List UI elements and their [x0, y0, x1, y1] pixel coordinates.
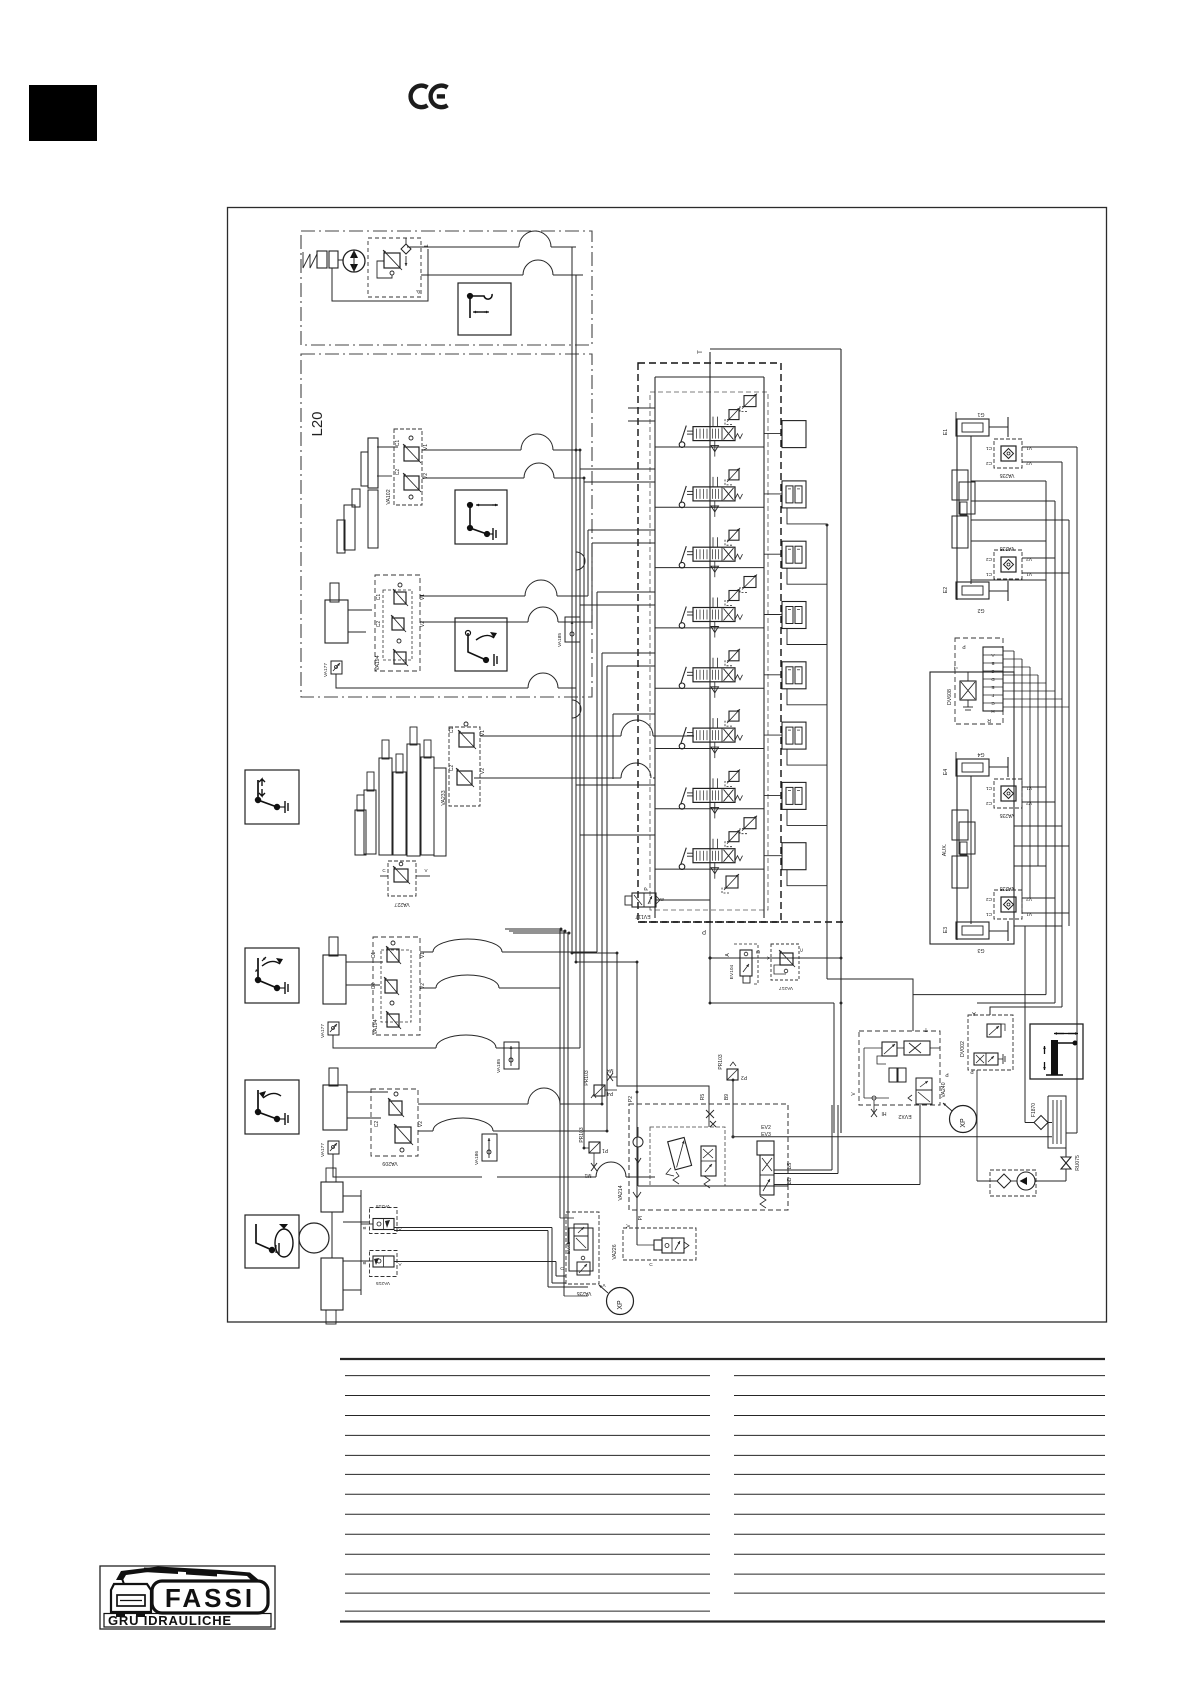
compensator wire 1	[764, 433, 782, 435]
valve RU075	[1061, 1157, 1071, 1169]
svg-text:BD: BD	[787, 1177, 793, 1184]
DV608 pin connector	[983, 647, 1003, 711]
VA217 valve dashed box	[771, 944, 799, 980]
hand pump HP circle	[343, 250, 365, 272]
DCV spool 5	[693, 668, 735, 682]
EVX1 lower valve	[577, 1262, 590, 1275]
bank section 1 separator	[655, 446, 764, 448]
svg-text:VA214: VA214	[618, 1185, 624, 1200]
valve block VA209 dashed box	[371, 1089, 418, 1156]
VA233 valve 2	[457, 771, 472, 785]
vertical hose on bundle	[576, 552, 585, 570]
oil tank	[1047, 1096, 1049, 1133]
VA226 spool	[662, 1238, 684, 1253]
valve block VA233 dashed box	[449, 727, 480, 806]
valve block VA102 dashed box	[394, 429, 422, 505]
wire bundle vertical 7	[596, 592, 598, 952]
FASSI wordmark box	[152, 1581, 268, 1613]
suction strainer	[997, 1174, 1011, 1188]
svg-text:G1: G1	[977, 411, 984, 417]
svg-text:A: A	[398, 1262, 401, 1267]
valve VA235 for G1	[994, 439, 1022, 468]
svg-text:C2: C2	[986, 556, 992, 562]
svg-text:B: B	[991, 661, 994, 666]
stabilizer cylinder G2	[956, 582, 989, 599]
svg-text:B: B	[362, 1261, 367, 1264]
svg-text:VA240: VA240	[941, 1082, 947, 1097]
wire slewing A lower	[394, 1261, 556, 1263]
svg-text:DV608: DV608	[947, 689, 953, 705]
collector to lower right	[827, 979, 913, 1031]
svg-text:V2: V2	[1026, 460, 1032, 466]
svg-text:T: T	[698, 350, 704, 354]
valve block VA214 dashed box	[629, 1104, 788, 1210]
svg-text:VA194: VA194	[375, 655, 381, 670]
outrigger beam	[956, 759, 958, 940]
FASSI logo crane boom	[116, 1567, 260, 1582]
VA194 valve 1	[394, 592, 406, 604]
DCV spool 7	[693, 788, 735, 802]
svg-text:P4: P4	[607, 1090, 613, 1096]
svg-text:V1: V1	[1026, 785, 1032, 791]
valve 2	[395, 1127, 411, 1143]
suction strainer + pump dashed box	[990, 1170, 1036, 1196]
icon box: jib 2	[245, 1080, 299, 1134]
bank feed row3 B	[592, 542, 655, 544]
svg-text:G: G	[991, 701, 995, 706]
pump suction lines	[976, 1070, 978, 1181]
DCV check valve 4	[714, 622, 716, 638]
VA214 pilot valve slanted	[668, 1137, 692, 1169]
wire V1 to bundle	[422, 449, 521, 451]
pressure compensator 2	[782, 481, 806, 508]
bank feed row2 B	[584, 481, 655, 483]
svg-text:V1: V1	[423, 444, 429, 450]
svg-text:V2: V2	[418, 1121, 424, 1127]
bank feed row1 A	[628, 407, 655, 409]
XP quick coupling 2	[950, 1106, 977, 1133]
DCV check valve 2	[714, 501, 716, 517]
bank feed row2 A	[579, 468, 581, 470]
svg-text:VA177: VA177	[320, 1024, 326, 1038]
svg-text:B: B	[362, 1226, 367, 1229]
DCV check valve 7	[714, 802, 716, 818]
wire V2 to bundle	[422, 477, 524, 479]
svg-text:VA194: VA194	[373, 1019, 379, 1034]
CE marking	[411, 86, 448, 108]
stabilizer cylinder G1	[956, 419, 989, 436]
pressure compensator 5	[782, 662, 806, 689]
section relief valve 6	[729, 711, 739, 721]
DCV spool 1	[693, 427, 735, 441]
svg-text:E4: E4	[943, 769, 949, 775]
valve VA215 lower	[373, 1256, 394, 1267]
svg-text:E1: E1	[943, 429, 949, 435]
diverter DV608 dashed box	[955, 638, 1003, 724]
pump base lines	[332, 249, 428, 301]
svg-text:VA102: VA102	[386, 489, 392, 504]
wire bundle vertical 10	[612, 714, 614, 779]
svg-text:VA235: VA235	[999, 812, 1014, 818]
svg-text:GRU IDRAULICHE: GRU IDRAULICHE	[108, 1613, 232, 1628]
VA177-2 lock valve	[328, 1022, 339, 1035]
wire bundle vertical 8	[601, 653, 603, 1104]
svg-text:G2: G2	[977, 607, 984, 613]
drain bundle corner	[575, 687, 577, 689]
svg-text:V1: V1	[1026, 911, 1032, 917]
slewing pinion circle	[299, 1223, 329, 1253]
relief valve block dashed box	[368, 238, 421, 297]
pressure compensator 6	[782, 722, 806, 749]
valve VA235 for G2	[994, 550, 1022, 579]
svg-text:F1870: F1870	[1031, 1103, 1037, 1117]
svg-text:V2: V2	[1026, 896, 1032, 902]
svg-text:VA185: VA185	[496, 1059, 502, 1073]
right bundle verticals	[1045, 481, 1047, 995]
VA227 valve	[394, 869, 408, 882]
wire bundle vertical 6	[591, 543, 593, 622]
lower-right assembly housing	[930, 672, 1014, 944]
compensator wire 8	[764, 855, 782, 857]
P distribution horizontal	[710, 1002, 834, 1004]
DCV spool 4	[693, 608, 735, 622]
compensator wire 4	[764, 614, 782, 616]
DCV check valve 8	[714, 863, 716, 879]
svg-text:C2: C2	[371, 983, 377, 990]
M1 test point	[593, 1153, 595, 1166]
svg-text:C2: C2	[376, 621, 382, 628]
DCV check valve 6	[714, 742, 716, 758]
gear pump	[1017, 1172, 1035, 1190]
svg-text:XP: XP	[617, 1300, 624, 1310]
valve 2	[385, 980, 397, 993]
wires into EVX1	[560, 1217, 574, 1219]
vertical hose 2 on bundle	[572, 700, 581, 718]
bundle turn to VA214 P	[576, 961, 637, 963]
FASSI logo truck cab	[111, 1584, 151, 1612]
svg-text:C: C	[649, 1262, 653, 1268]
cylinder 2 (VA194 group)	[325, 600, 348, 643]
bank inlet EV117 solenoid valve	[632, 893, 656, 907]
bank section 4 separator	[655, 627, 764, 629]
telescopic extension cylinders	[355, 810, 366, 855]
valve 1	[389, 1101, 402, 1115]
wire bundle vertical 2	[575, 275, 577, 962]
svg-text:C1: C1	[449, 727, 455, 734]
icon box: stabilizer beams	[1030, 1024, 1083, 1079]
boom cylinder (VA102 group)	[368, 438, 378, 488]
DCV spool 3	[693, 547, 735, 561]
svg-text:RU075: RU075	[1075, 1155, 1081, 1171]
VA214 cut symbols	[706, 1110, 714, 1118]
pressure compensator 4	[782, 602, 806, 629]
EVX2 pressure valve	[882, 1042, 897, 1056]
section relief valve 4	[729, 591, 739, 601]
check valve VA186	[482, 1134, 497, 1161]
bank outlet relief	[726, 876, 738, 888]
gauge PR103-P1	[589, 1142, 600, 1153]
wire bundle vertical 4	[583, 478, 585, 1148]
svg-text:C2: C2	[986, 460, 992, 466]
slewing rack cylinder	[321, 1182, 343, 1212]
wire VA177-3 drain	[333, 1154, 482, 1177]
svg-text:VA235: VA235	[999, 472, 1014, 478]
cylinder 4 (VA209)	[323, 1085, 347, 1130]
wire V2 VA233	[474, 777, 621, 779]
icon box: 1st boom raise	[455, 490, 507, 544]
svg-text:PI: PI	[638, 1216, 644, 1221]
valve VA227 dashed box	[388, 861, 416, 896]
compensator wire 3	[764, 553, 782, 555]
svg-text:EV3: EV3	[761, 1132, 771, 1138]
M4 test point	[610, 1076, 617, 1078]
DV002 relief valve	[987, 1024, 1001, 1037]
svg-text:EVX2: EVX2	[898, 1113, 911, 1119]
junction dots	[575, 449, 578, 452]
svg-text:C2: C2	[374, 1121, 380, 1128]
valve block VA194 dashed box	[375, 575, 420, 671]
DCV spool 2	[693, 487, 735, 501]
section relief valve 7	[729, 771, 739, 781]
svg-text:R: R	[987, 717, 991, 723]
DCV check valve 3	[714, 561, 716, 577]
DCV pilot lines 3	[712, 537, 714, 547]
svg-text:VA217: VA217	[779, 985, 793, 991]
check valve to tank	[401, 244, 411, 254]
bank feed row3 A	[588, 529, 655, 531]
svg-text:P1: P1	[602, 1147, 608, 1153]
VA194 valve 3	[394, 652, 406, 664]
VA217 valve	[780, 953, 793, 965]
svg-text:EVX1: EVX1	[566, 1242, 572, 1255]
svg-text:VA226: VA226	[612, 1244, 618, 1259]
E2 VA235 wires	[1022, 557, 1055, 559]
svg-text:V1: V1	[420, 952, 426, 958]
check valve VA185-0	[565, 617, 580, 642]
VA214 relief spring	[673, 1172, 679, 1184]
pressure compensator 3	[782, 541, 806, 568]
bank internal frame verticals	[654, 377, 656, 918]
svg-text:VA177: VA177	[320, 1143, 326, 1157]
svg-text:VA227: VA227	[394, 901, 409, 907]
wire slewing A upper	[394, 1227, 552, 1229]
bank section 8 separator	[655, 868, 764, 870]
DCV spool 6	[693, 728, 735, 742]
DCV pilot lines 1	[712, 417, 714, 427]
valve bank outer solid housing	[710, 348, 841, 350]
bank feed row6 A	[613, 713, 655, 715]
svg-text:VA215: VA215	[376, 1280, 390, 1286]
svg-text:E2: E2	[943, 587, 949, 593]
valve VA215 upper	[373, 1219, 394, 1230]
DCV lever 3	[679, 562, 685, 568]
mid vertical to bottom	[833, 1003, 835, 1133]
wire VA177 drain	[336, 674, 528, 688]
valve block VA226 dashed box	[623, 1228, 696, 1260]
wire V2 VA194-2	[420, 987, 436, 989]
VA226 reducing valve	[654, 1240, 662, 1250]
DCV lever 1	[679, 442, 685, 448]
svg-text:C1: C1	[986, 911, 992, 917]
FASSI logo	[100, 1566, 275, 1629]
valve block EVX2/VA240 dashed box	[859, 1031, 940, 1105]
bank section 5 separator	[655, 687, 764, 689]
icon box: slewing	[245, 1215, 299, 1268]
VA177 lock valve	[331, 661, 342, 674]
svg-text:EV2: EV2	[761, 1125, 771, 1131]
svg-text:EV117: EV117	[635, 913, 650, 919]
svg-text:V2: V2	[480, 768, 486, 774]
hose T	[519, 231, 551, 247]
svg-text:BS: BS	[787, 1162, 793, 1169]
section relief valve 5	[729, 651, 739, 661]
bank P down line	[709, 922, 711, 1003]
DCV check valve 1	[714, 441, 716, 457]
bank section 6 separator	[655, 748, 764, 750]
bank section 2 separator	[655, 506, 764, 508]
svg-text:DV002: DV002	[960, 1041, 966, 1057]
svg-text:VA235: VA235	[999, 545, 1014, 551]
wire VA177-2 drain	[333, 1035, 436, 1048]
DCV lever 2	[679, 502, 685, 508]
svg-text:V: V	[424, 868, 427, 873]
schematic border frame	[228, 208, 1107, 1323]
svg-text:V1: V1	[1026, 445, 1032, 451]
svg-text:VA185: VA185	[557, 633, 563, 647]
svg-text:VA209: VA209	[382, 1160, 397, 1166]
pump outlet line T	[407, 246, 519, 248]
svg-text:V1: V1	[420, 594, 426, 600]
DV608 pin wires	[1003, 650, 1014, 652]
EVX2 shutoff	[904, 1041, 930, 1055]
svg-text:V2: V2	[1026, 800, 1032, 806]
EVX2 compensator	[889, 1068, 897, 1082]
main pressure vertical through VA214	[636, 962, 638, 1245]
section relief valve 2	[729, 470, 739, 480]
VA177-3 lock valve	[328, 1141, 339, 1154]
svg-text:C2: C2	[449, 765, 455, 772]
section extra relief 1	[744, 396, 756, 407]
svg-text:R5: R5	[700, 1094, 706, 1101]
VA214 inner dashed box	[650, 1127, 725, 1186]
emergency pump section enclosure (dash-dot)	[301, 231, 592, 345]
bank section 3 separator	[655, 567, 764, 569]
EVX1 solenoid valve	[574, 1224, 588, 1236]
parts list table	[340, 1359, 1105, 1622]
svg-text:B9: B9	[724, 1094, 730, 1100]
L20 crane section enclosure (dash-dot)	[301, 354, 592, 697]
svg-text:VA233: VA233	[441, 790, 447, 805]
svg-text:T: T	[954, 666, 960, 669]
DCV lever 7	[679, 804, 685, 810]
svg-text:V1: V1	[480, 730, 486, 736]
wire V1 VA233	[480, 735, 621, 737]
DCV pilot lines 4	[712, 598, 714, 608]
wire bundle vertical 3	[579, 450, 581, 1048]
stabilizer cylinder G4	[956, 759, 989, 776]
svg-text:V2: V2	[1026, 556, 1032, 562]
DCV pilot lines 2	[712, 477, 714, 487]
wire V1 VA209	[418, 1103, 528, 1105]
svg-text:E: E	[991, 685, 994, 690]
svg-text:EV104: EV104	[729, 964, 735, 979]
bundle turn to P4 gauge	[572, 953, 709, 1104]
valve VA215 upper dashed bracket	[370, 1208, 398, 1234]
wire bundle vertical 1	[571, 247, 573, 953]
VA194 valve 2	[392, 618, 404, 630]
bank feed row4 A	[597, 591, 655, 593]
svg-text:T: T	[924, 1026, 927, 1032]
VA102 valve 1	[404, 447, 419, 461]
tank return line	[734, 1136, 1052, 1138]
pressure compensator 1	[782, 421, 806, 448]
svg-text:F: F	[991, 693, 994, 698]
svg-text:C1: C1	[371, 952, 377, 959]
gauge PR103-P4	[594, 1085, 605, 1096]
E4 E3 wires	[1022, 786, 1046, 788]
VA214 check ball	[633, 1137, 643, 1147]
pump outlet line P	[421, 274, 523, 276]
svg-text:XP: XP	[960, 1118, 967, 1128]
valve block VA194-2 dashed box	[373, 937, 420, 1035]
icon box: jib 1	[245, 948, 299, 1003]
svg-text:C2: C2	[395, 469, 401, 476]
compensator wire 5	[764, 674, 782, 676]
section extra relief 4	[744, 577, 756, 588]
compensator wire 2	[764, 493, 782, 495]
wire bundle vertical 5	[587, 530, 589, 596]
svg-text:FASSI: FASSI	[165, 1583, 255, 1613]
check valve VA185-1	[504, 1042, 519, 1069]
DCV lever 6	[679, 743, 685, 749]
svg-text:VA235: VA235	[576, 1290, 591, 1296]
svg-text:E3: E3	[943, 927, 949, 933]
risers to EVX2	[831, 1105, 833, 1170]
DCV lever 5	[679, 683, 685, 689]
svg-text:P: P	[702, 928, 706, 934]
valve VA235 for G3	[994, 890, 1022, 919]
bank top frame line	[655, 376, 764, 378]
DV002 feed	[841, 1003, 977, 1015]
svg-text:VA177: VA177	[323, 663, 329, 677]
VA214 sequence valve	[701, 1146, 716, 1176]
diverter DV002 dashed box	[968, 1015, 1013, 1070]
black index square	[29, 85, 97, 141]
beam extension cylinders	[952, 810, 968, 840]
compensator wire 7	[764, 794, 782, 796]
valve VA215 lower dashed bracket	[370, 1251, 398, 1277]
svg-text:G4: G4	[977, 751, 984, 757]
bank feed row1 B	[628, 420, 655, 422]
svg-text:L20: L20	[309, 411, 326, 436]
pressure line to EV104	[710, 957, 841, 959]
svg-text:C1: C1	[986, 571, 992, 577]
svg-text:C1: C1	[395, 440, 401, 447]
VA233 valve 1	[459, 733, 474, 747]
svg-text:P2: P2	[741, 1074, 747, 1080]
svg-text:M4: M4	[606, 1067, 613, 1073]
svg-text:VA186: VA186	[474, 1151, 480, 1165]
hand pump actuator blocks	[317, 251, 327, 268]
bank feed row5 B	[607, 665, 655, 667]
compensator collector vertical	[826, 525, 828, 979]
cylinder 3 (VA194-2)	[323, 955, 346, 1004]
VA102 valve 2	[404, 476, 419, 490]
svg-text:C2: C2	[986, 896, 992, 902]
outrigger beam	[956, 419, 958, 600]
section relief valve 1	[729, 410, 739, 420]
compensator wire 6	[764, 734, 782, 736]
